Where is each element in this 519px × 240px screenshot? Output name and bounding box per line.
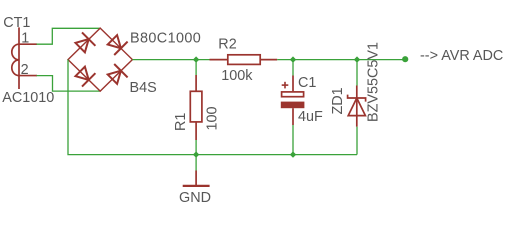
bridge rectifier diamond outline (68, 28, 132, 91)
wire R1 top (195, 60, 197, 75)
wire ZD1 bottom (356, 127, 358, 155)
wire net DC+: bridge right corner to R2 (132, 59, 209, 61)
svg-text:100: 100 (204, 106, 220, 130)
svg-text:GND: GND (179, 190, 211, 206)
transformer CT1 winding arc 2 (12, 60, 19, 76)
svg-text:R2: R2 (218, 37, 236, 53)
bridge diode D2 (top-right) (108, 35, 128, 55)
svg-text:2: 2 (21, 62, 29, 78)
bridge diode D1 (left-top) (76, 32, 96, 52)
svg-text:100k: 100k (221, 68, 253, 84)
wire C1 top (292, 60, 294, 76)
junction at C1 top (290, 56, 296, 62)
svg-text:CT1: CT1 (3, 15, 30, 31)
resistor R2 (210, 55, 278, 65)
wire net AC2: pin2 to bridge bottom corner (37, 76, 101, 92)
capacitor C1 (282, 76, 304, 126)
junction at R1 top (193, 56, 199, 62)
net endpoint dot (402, 56, 408, 62)
wire R1 bottom (195, 140, 197, 155)
bridge diode D3 (left-bottom) (76, 67, 96, 87)
wire ground rail (68, 60, 357, 155)
ground symbol GND (183, 171, 210, 186)
svg-text:B80C1000: B80C1000 (130, 30, 201, 46)
bridge diode D4 (bottom-right) (108, 64, 128, 84)
svg-text:AC1010: AC1010 (2, 90, 54, 106)
svg-text:4uF: 4uF (298, 109, 323, 125)
svg-text:R1: R1 (173, 113, 189, 131)
wire C1 bottom (292, 125, 294, 155)
svg-text:BZV55C5V1: BZV55C5V1 (366, 42, 382, 122)
zener diode ZD1 (348, 86, 366, 127)
transformer CT1 pin 2 stub (19, 75, 37, 77)
transformer CT1 core line (18, 27, 20, 89)
wire net AC1: pin1 to bridge top corner (37, 28, 101, 44)
svg-text:B4S: B4S (130, 80, 157, 96)
junction at GND (193, 151, 199, 157)
svg-text:C1: C1 (298, 75, 316, 91)
svg-text:--> AVR ADC: --> AVR ADC (420, 48, 503, 64)
wire output net: R2 to ADC endpoint (277, 59, 405, 61)
junction at C1 bottom (290, 151, 296, 157)
svg-text:1: 1 (21, 30, 29, 46)
capacitor C1 plus sign (282, 82, 289, 89)
resistor R1 (190, 75, 202, 140)
wire ZD1 top (356, 60, 358, 86)
transformer CT1 winding arc 1 (12, 44, 19, 60)
junction at ZD1 top (354, 56, 360, 62)
svg-text:ZD1: ZD1 (330, 87, 346, 114)
capacitor C1 bottom plate (filled) (281, 102, 305, 109)
wire GND stub (195, 155, 197, 171)
transformer CT1 pin 1 stub (19, 43, 37, 45)
